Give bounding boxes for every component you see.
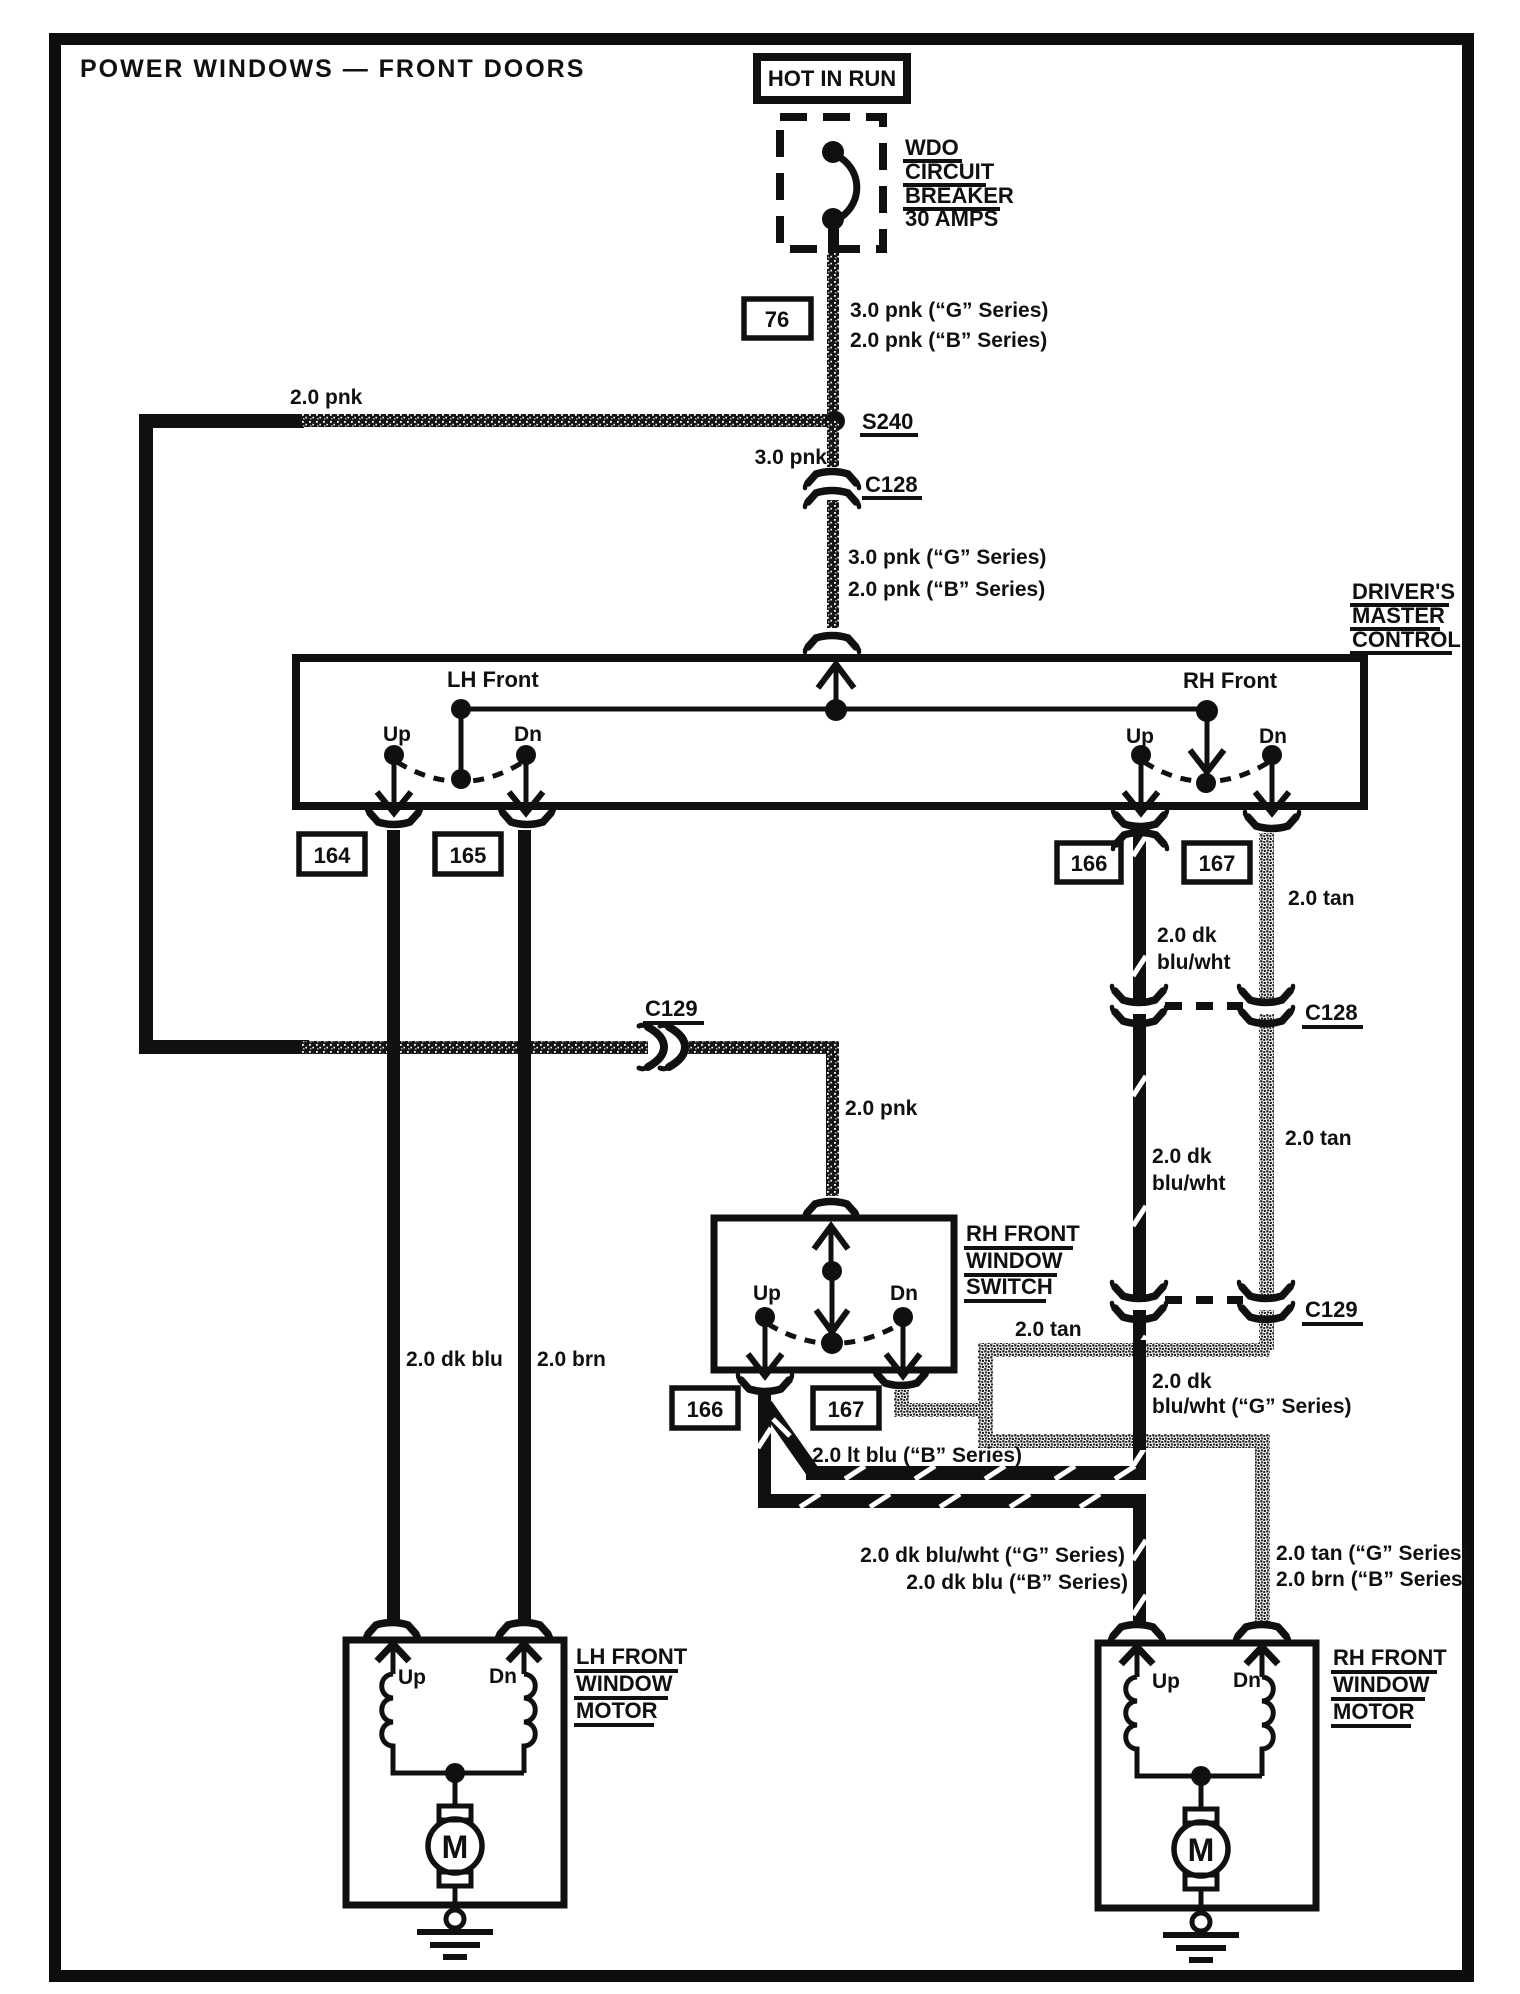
svg-text:RH Front: RH Front xyxy=(1183,668,1278,693)
RH switch leg with down arrow xyxy=(1205,711,1210,768)
svg-text:POWER WINDOWS — FRONT DOORS: POWER WINDOWS — FRONT DOORS xyxy=(80,55,585,83)
svg-text:Up: Up xyxy=(1152,1670,1180,1693)
LH common contact xyxy=(451,769,471,789)
svg-text:Dn: Dn xyxy=(489,1665,517,1688)
RH Up contact xyxy=(1131,745,1151,765)
svg-text:LH FRONT: LH FRONT xyxy=(576,1644,688,1669)
svg-text:BREAKER: BREAKER xyxy=(905,183,1014,208)
tan vertical to RH motor xyxy=(1255,1434,1270,1624)
LH Dn contact xyxy=(516,745,536,765)
svg-text:WINDOW: WINDOW xyxy=(576,1671,673,1696)
circuit number box 167 xyxy=(1184,843,1250,882)
RH common contact xyxy=(1196,773,1216,793)
wire: switch 166 hatched vertical tail xyxy=(758,1395,771,1508)
RH motor connector cap Up xyxy=(1110,1625,1164,1642)
svg-text:MOTOR: MOTOR xyxy=(576,1698,658,1723)
wire 167: 2.0 tan vertical from master control xyxy=(1259,833,1274,1350)
circuit number box 166 xyxy=(1057,843,1121,882)
svg-text:DRIVER'S: DRIVER'S xyxy=(1352,579,1455,604)
connector at master control input xyxy=(805,636,859,653)
LH Up contact xyxy=(384,745,404,765)
svg-text:2.0 pnk: 2.0 pnk xyxy=(845,1097,918,1120)
wire: hatched horizontal H2 xyxy=(758,1494,1146,1508)
connector pair C129 right half xyxy=(1257,1302,1276,1310)
switch Up contact xyxy=(755,1307,775,1327)
connector pair C128 left half xyxy=(1130,1006,1149,1014)
connector mated pin 166 xyxy=(1113,810,1167,827)
svg-text:2.0 dk: 2.0 dk xyxy=(1152,1145,1212,1168)
svg-text:RH FRONT: RH FRONT xyxy=(1333,1645,1447,1670)
switch Dn output arrow xyxy=(901,1322,906,1370)
connector at switch input xyxy=(804,1202,858,1219)
connector cup pin 167 (tan) xyxy=(1245,812,1299,829)
svg-text:HOT IN RUN: HOT IN RUN xyxy=(768,66,896,91)
svg-text:Up: Up xyxy=(398,1666,426,1689)
LH Dn output arrow xyxy=(524,760,529,808)
wire: pnk vertical down to switch xyxy=(826,1041,839,1196)
wire: left branch vertical down xyxy=(139,414,153,1054)
wire 164 crossing patch xyxy=(387,1039,400,1056)
circuit number box 164 xyxy=(299,834,365,874)
svg-text:167: 167 xyxy=(1199,851,1236,876)
white slashes on 166 wire xyxy=(1133,836,1146,1466)
svg-text:2.0 tan: 2.0 tan xyxy=(1285,1127,1352,1150)
svg-text:2.0 dk blu/wht (“G” Series): 2.0 dk blu/wht (“G” Series) xyxy=(860,1544,1125,1567)
LH motor M symbol xyxy=(439,1806,471,1820)
svg-text:Dn: Dn xyxy=(514,723,542,746)
svg-text:2.0 dk: 2.0 dk xyxy=(1157,924,1217,947)
svg-text:C128: C128 xyxy=(1305,1000,1358,1025)
svg-text:Dn: Dn xyxy=(1233,1669,1261,1692)
RH motor connector cap Dn xyxy=(1235,1625,1289,1642)
svg-text:2.0 dk blu (“B” Series): 2.0 dk blu (“B” Series) xyxy=(906,1571,1128,1594)
LH motor ground xyxy=(446,1910,464,1928)
LH Up output arrow xyxy=(392,760,397,808)
connector pair C128 right half xyxy=(1257,1006,1276,1014)
RH motor Up coil xyxy=(1126,1677,1262,1776)
svg-text:MOTOR: MOTOR xyxy=(1333,1699,1415,1724)
svg-text:LH Front: LH Front xyxy=(447,667,539,692)
switch Up output arrow xyxy=(763,1322,768,1370)
svg-text:76: 76 xyxy=(765,307,789,332)
svg-text:2.0 tan: 2.0 tan xyxy=(1288,887,1355,910)
svg-text:2.0 dk: 2.0 dk xyxy=(1152,1370,1212,1393)
wire: S240 down to C128 xyxy=(827,421,839,467)
svg-text:2.0 pnk (“B” Series): 2.0 pnk (“B” Series) xyxy=(850,329,1047,352)
node RH front xyxy=(1196,700,1218,722)
svg-text:2.0 brn (“B” Series): 2.0 brn (“B” Series) xyxy=(1276,1568,1470,1591)
connector cup pin 164 xyxy=(367,808,421,825)
svg-text:3.0 pnk: 3.0 pnk xyxy=(755,446,828,469)
svg-text:WINDOW: WINDOW xyxy=(1333,1672,1430,1697)
node S240 xyxy=(825,411,845,431)
RH Dn output arrow xyxy=(1270,760,1275,808)
breaker curved element xyxy=(836,155,857,218)
svg-text:165: 165 xyxy=(450,843,487,868)
svg-text:blu/wht: blu/wht xyxy=(1152,1172,1225,1195)
svg-text:2.0 pnk (“B” Series): 2.0 pnk (“B” Series) xyxy=(848,578,1045,601)
LH wiper dashed arc xyxy=(397,762,523,782)
svg-text:2.0 tan: 2.0 tan xyxy=(1015,1318,1082,1341)
switch feed node xyxy=(822,1261,842,1281)
wire: hatched vertical to RH motor xyxy=(1133,1494,1146,1626)
svg-text:2.0 tan (“G” Series): 2.0 tan (“G” Series) xyxy=(1276,1542,1469,1565)
tan horizontal jog upper xyxy=(978,1343,1270,1357)
svg-text:blu/wht (“G” Series): blu/wht (“G” Series) xyxy=(1152,1395,1352,1418)
wire 165: 2.0 brn down to LH motor xyxy=(518,830,531,1620)
wire: S240 left branch horizontal stippled part xyxy=(300,414,838,427)
connector cup switch 167 xyxy=(874,1369,928,1386)
switch common contact xyxy=(821,1332,843,1354)
driver's master control box xyxy=(296,658,1364,806)
RH motor ground lead xyxy=(1199,1889,1204,1915)
svg-text:M: M xyxy=(1188,1832,1215,1868)
svg-text:C128: C128 xyxy=(865,472,918,497)
svg-text:WINDOW: WINDOW xyxy=(966,1248,1063,1273)
svg-text:SWITCH: SWITCH xyxy=(966,1274,1053,1299)
tan horizontal jog lower xyxy=(978,1434,1270,1448)
LH motor connector cap Up xyxy=(365,1623,419,1640)
white slashes on switch hatched wires xyxy=(758,1419,1146,1615)
RH motor ground xyxy=(1192,1913,1210,1931)
wire: breaker output stub (black) xyxy=(828,219,839,255)
master control bus line xyxy=(461,707,1207,712)
wire: pnk feed breaker to S240 xyxy=(827,253,839,423)
LH motor lead xyxy=(453,1773,458,1808)
switch feed leg with down arrow xyxy=(830,1271,835,1328)
svg-text:167: 167 xyxy=(828,1397,865,1422)
wire: S240 left branch horizontal black part xyxy=(139,414,304,428)
RH motor Dn coil xyxy=(1262,1677,1273,1776)
RH motor Up input arrow xyxy=(1121,1647,1153,1664)
connector C129 inline on pnk wire xyxy=(639,1025,685,1069)
RH front window switch box xyxy=(714,1218,954,1370)
svg-text:Dn: Dn xyxy=(1259,725,1287,748)
breaker contact top xyxy=(822,141,844,163)
RH motor lead xyxy=(1199,1776,1204,1811)
wire: switch Dn tan tail xyxy=(894,1390,909,1417)
svg-text:Up: Up xyxy=(753,1282,781,1305)
circuit number box 76 xyxy=(744,299,811,338)
svg-text:CIRCUIT: CIRCUIT xyxy=(905,159,995,184)
svg-text:3.0 pnk (“G” Series): 3.0 pnk (“G” Series) xyxy=(848,546,1046,569)
wire: C128 to master control input xyxy=(827,500,839,628)
switch feed arrow (up) xyxy=(829,1226,834,1268)
breaker contact bottom xyxy=(822,208,844,230)
svg-text:2.0 pnk: 2.0 pnk xyxy=(290,386,363,409)
LH motor common node xyxy=(445,1763,465,1783)
svg-text:Up: Up xyxy=(383,723,411,746)
svg-text:Dn: Dn xyxy=(890,1282,918,1305)
RH front window motor box xyxy=(1098,1643,1316,1908)
circuit number box 166 (switch) xyxy=(672,1388,738,1428)
svg-text:2.0 lt blu (“B” Series): 2.0 lt blu (“B” Series) xyxy=(812,1444,1022,1467)
LH motor Dn input arrow xyxy=(508,1644,540,1661)
svg-text:164: 164 xyxy=(314,843,351,868)
RH motor common node xyxy=(1191,1766,1211,1786)
wire: C129 inline horizontal pnk continuing to switch xyxy=(688,1041,838,1054)
svg-text:2.0 dk blu: 2.0 dk blu xyxy=(406,1348,503,1371)
svg-text:C129: C129 xyxy=(645,996,698,1021)
svg-text:MASTER: MASTER xyxy=(1352,603,1445,628)
circuit number box 165 xyxy=(435,834,501,874)
tan vertical jog xyxy=(978,1343,993,1448)
node LH front xyxy=(451,699,471,719)
switch wiper dashed arc xyxy=(768,1324,900,1344)
svg-text:M: M xyxy=(442,1829,469,1865)
svg-text:Up: Up xyxy=(1126,725,1154,748)
wire: pnk left branch horizontal stipple part xyxy=(300,1041,648,1054)
wire 166 crossing patches over tan jog xyxy=(1133,1340,1146,1359)
LH motor Dn coil xyxy=(524,1674,535,1773)
LH common leg xyxy=(459,709,464,779)
svg-text:2.0 brn: 2.0 brn xyxy=(537,1348,606,1371)
svg-text:S240: S240 xyxy=(862,409,913,434)
master control feed arrow (up) xyxy=(834,664,839,710)
RH motor Dn input arrow xyxy=(1246,1647,1278,1664)
svg-text:3.0 pnk (“G” Series): 3.0 pnk (“G” Series) xyxy=(850,299,1048,322)
connector cup switch 166 xyxy=(738,1375,792,1392)
connector pair C129 left half xyxy=(1130,1302,1149,1310)
svg-text:C129: C129 xyxy=(1305,1297,1358,1322)
svg-text:166: 166 xyxy=(1071,851,1108,876)
LH front window motor box xyxy=(346,1640,564,1905)
RH Dn contact xyxy=(1262,745,1282,765)
LH motor ground lead xyxy=(453,1886,458,1912)
node center feed xyxy=(825,699,847,721)
connector cup pin 165 xyxy=(500,808,554,825)
circuit breaker WDO dashed box xyxy=(780,117,883,249)
svg-text:CONTROL: CONTROL xyxy=(1352,627,1461,652)
connector C128 inline on pnk wire xyxy=(805,472,859,489)
svg-text:WDO: WDO xyxy=(905,135,959,160)
HOT IN RUN box xyxy=(757,57,907,100)
LH motor connector cap Dn xyxy=(497,1623,551,1640)
svg-text:166: 166 xyxy=(687,1397,724,1422)
RH wiper dashed arc xyxy=(1144,762,1269,782)
C128 pair dashed link xyxy=(1165,1002,1243,1010)
LH motor Up input arrow xyxy=(377,1644,409,1661)
wire 164: 2.0 dk blu down to LH motor xyxy=(387,830,400,1620)
svg-text:blu/wht: blu/wht xyxy=(1157,951,1230,974)
wire: lt blu horizontal H1 xyxy=(806,1466,1146,1480)
svg-text:30 AMPS: 30 AMPS xyxy=(905,206,998,231)
wire: pnk left branch horizontal at bottom black part xyxy=(139,1040,309,1054)
RH Up output arrow xyxy=(1139,760,1144,808)
RH motor M symbol xyxy=(1185,1809,1217,1823)
C129 pair dashed link xyxy=(1165,1296,1243,1304)
switch Dn contact xyxy=(893,1307,913,1327)
circuit number box 167 (switch) xyxy=(813,1388,879,1428)
wire: switch 166 diagonal to lt blu junction xyxy=(766,1405,813,1472)
svg-text:RH FRONT: RH FRONT xyxy=(966,1221,1080,1246)
wire 166: 2.0 dk blu/wht hatched vertical from master control xyxy=(1133,826,1146,1478)
LH motor Up coil xyxy=(382,1674,524,1773)
